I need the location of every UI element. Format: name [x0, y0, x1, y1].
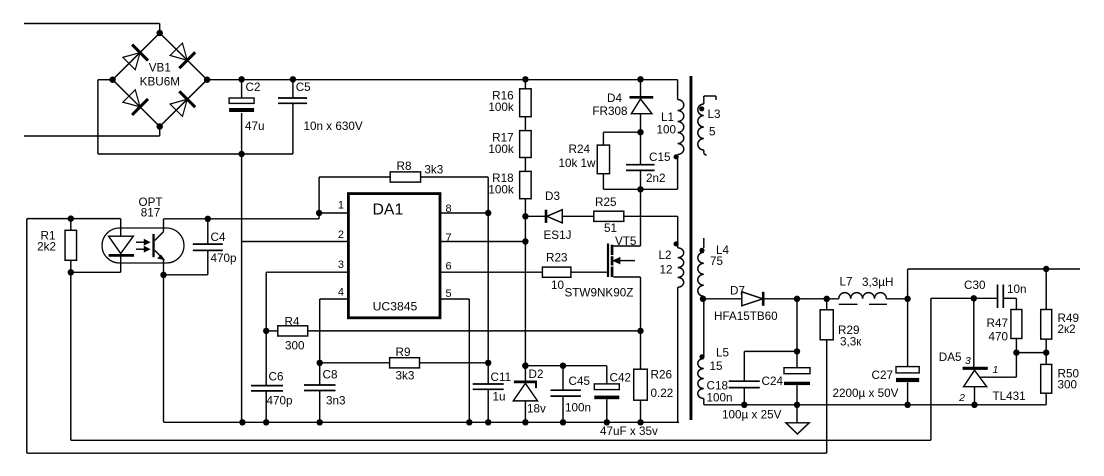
- wire VCC column: [524, 79, 526, 365]
- svg-text:C8: C8: [323, 369, 338, 382]
- svg-text:L5: L5: [716, 347, 730, 360]
- svg-text:C27: C27: [872, 369, 893, 382]
- svg-text:L3: L3: [708, 108, 721, 121]
- svg-text:ES1J: ES1J: [544, 229, 572, 242]
- svg-text:3n3: 3n3: [326, 395, 346, 408]
- wire output plus: [907, 269, 909, 299]
- svg-text:R26: R26: [651, 369, 672, 382]
- svg-text:75: 75: [710, 255, 724, 268]
- capacitor C4: [205, 216, 211, 222]
- wire CS sense: [308, 330, 641, 332]
- wire pin2: [242, 241, 349, 243]
- svg-text:10k 1w: 10k 1w: [558, 157, 596, 170]
- wire AC input top: [24, 23, 160, 25]
- svg-text:470p: 470p: [211, 252, 238, 265]
- inductor L4 secondary winding 75: [698, 238, 705, 299]
- svg-text:2к2: 2к2: [1058, 323, 1076, 336]
- svg-text:2200µ x 50V: 2200µ x 50V: [833, 387, 899, 400]
- wire feedback R29 to opto anode: [27, 452, 827, 454]
- svg-text:R23: R23: [546, 252, 567, 265]
- svg-text:FR308: FR308: [592, 105, 627, 118]
- capacitor C15: [640, 132, 642, 165]
- svg-text:5: 5: [709, 126, 716, 139]
- capacitor C6: [251, 385, 283, 387]
- node L4-L5 junction: [700, 296, 706, 302]
- svg-text:STW9NK90Z: STW9NK90Z: [565, 287, 634, 300]
- diode D4: [630, 96, 654, 99]
- resistor R18: [520, 171, 532, 198]
- capacitor C30: [997, 285, 999, 309]
- resistor R50: [1041, 364, 1052, 393]
- capacitor C45: [562, 366, 564, 391]
- resistor R47: [1011, 310, 1022, 339]
- svg-text:C45: C45: [569, 375, 591, 388]
- svg-text:HFA15TB60: HFA15TB60: [714, 310, 778, 323]
- svg-text:2: 2: [958, 392, 965, 404]
- L2 phase dot: [674, 241, 679, 246]
- svg-text:6: 6: [446, 261, 452, 273]
- resistor R17: [520, 131, 532, 158]
- node divider: [1013, 349, 1019, 355]
- svg-text:470: 470: [988, 331, 1008, 344]
- svg-text:C5: C5: [296, 81, 311, 94]
- inductor L2 aux winding: [678, 248, 684, 287]
- wire pin5: [440, 298, 469, 300]
- resistor R25: [594, 211, 624, 221]
- svg-text:100n: 100n: [565, 402, 591, 415]
- wire pin3: [266, 271, 348, 273]
- svg-text:1u: 1u: [493, 391, 506, 404]
- svg-text:100k: 100k: [488, 101, 514, 114]
- capacitor C24: [796, 299, 798, 368]
- svg-text:18v: 18v: [527, 403, 546, 416]
- wire drain vertical: [640, 189, 642, 246]
- capacitor C8: [304, 384, 336, 386]
- opto LED: [71, 219, 134, 273]
- svg-text:L1: L1: [661, 111, 674, 124]
- inductor L5 secondary winding 15: [698, 354, 705, 405]
- svg-text:D3: D3: [545, 190, 560, 203]
- svg-text:1: 1: [338, 200, 344, 212]
- wire primary return vertical (bridge- / pin2 / ground): [241, 154, 243, 422]
- wire pin8: [440, 212, 488, 214]
- wire AC input bottom: [24, 135, 160, 137]
- resistor R16: [520, 89, 532, 117]
- svg-text:D2: D2: [529, 368, 544, 381]
- svg-text:DA1: DA1: [373, 202, 404, 219]
- svg-text:R8: R8: [397, 160, 412, 173]
- svg-text:C42: C42: [610, 372, 631, 385]
- svg-text:R4: R4: [285, 316, 300, 329]
- svg-text:8: 8: [446, 203, 452, 215]
- wire bridge negative to bottom rail: [98, 79, 113, 81]
- svg-text:100µ x 25V: 100µ x 25V: [722, 409, 782, 422]
- svg-text:300: 300: [1058, 379, 1078, 392]
- svg-text:3,3µH: 3,3µH: [862, 276, 893, 289]
- resistor R29: [826, 299, 828, 310]
- svg-text:100n: 100n: [707, 392, 733, 405]
- svg-text:3: 3: [338, 259, 344, 271]
- svg-text:3: 3: [965, 355, 971, 367]
- svg-text:VT5: VT5: [615, 235, 637, 248]
- svg-text:5: 5: [446, 288, 452, 300]
- node emitter: [160, 272, 166, 278]
- svg-text:C24: C24: [762, 375, 784, 388]
- svg-text:12: 12: [660, 264, 673, 277]
- svg-text:C11: C11: [491, 371, 512, 384]
- capacitor C2: [241, 79, 243, 98]
- svg-text:15: 15: [710, 360, 724, 373]
- wire HV+ rail: [207, 79, 677, 81]
- op-amp U1 DA1 UC3845 controller IC: [338, 194, 452, 318]
- capacitor C5: [292, 79, 294, 98]
- svg-text:R24: R24: [569, 143, 591, 156]
- resistor R9: [317, 360, 323, 366]
- resistor R49: [1045, 269, 1047, 310]
- svg-text:C6: C6: [269, 371, 284, 384]
- svg-text:C30: C30: [964, 279, 986, 292]
- diode D7: [703, 298, 742, 300]
- svg-text:10: 10: [551, 279, 565, 292]
- transistor VT5 STW9NK90Z: [565, 235, 641, 300]
- inductor L7: [839, 293, 887, 299]
- ground symbol: [796, 405, 798, 423]
- wire collector to pin1: [164, 218, 320, 220]
- wire gate: [571, 271, 607, 273]
- shunt regulator DA5 TL431: [963, 298, 1017, 405]
- capacitor C42 47uF: [606, 366, 608, 384]
- svg-text:2n2: 2n2: [646, 172, 666, 185]
- svg-text:UC3845: UC3845: [373, 300, 418, 314]
- bridge rectifier VB1 KBU6M: [109, 30, 210, 130]
- svg-text:R47: R47: [987, 317, 1008, 330]
- resistor R23: [542, 267, 571, 277]
- wire source to sense: [640, 277, 642, 331]
- wire primary ground rail: [164, 421, 680, 423]
- svg-text:4: 4: [338, 287, 344, 299]
- capacitor C11 (VREF): [487, 213, 489, 384]
- svg-text:2: 2: [338, 229, 344, 241]
- svg-text:47uF x 35v: 47uF x 35v: [600, 425, 658, 438]
- svg-text:10n x 630V: 10n x 630V: [304, 120, 363, 133]
- svg-text:2k2: 2k2: [37, 241, 56, 254]
- svg-text:R25: R25: [595, 196, 617, 209]
- L1 phase dot: [674, 154, 679, 159]
- svg-text:DA5: DA5: [939, 351, 962, 364]
- svg-text:R9: R9: [396, 346, 411, 359]
- capacitor C27: [907, 299, 909, 367]
- opto light arrows: [136, 240, 149, 252]
- svg-text:3k3: 3k3: [396, 370, 415, 383]
- svg-text:D7: D7: [730, 285, 745, 298]
- svg-text:C15: C15: [649, 151, 671, 164]
- wire VCC storage caps: [525, 365, 606, 367]
- wire R25 to L2 top: [624, 215, 678, 217]
- transformer core: [690, 76, 693, 420]
- svg-text:TL431: TL431: [993, 390, 1026, 403]
- svg-text:47u: 47u: [245, 120, 265, 133]
- svg-text:0.22: 0.22: [651, 387, 674, 400]
- svg-text:100: 100: [657, 124, 677, 137]
- svg-text:470p: 470p: [267, 395, 294, 408]
- opto phototransistor: [152, 219, 163, 275]
- svg-text:VB1: VB1: [149, 62, 171, 75]
- svg-text:817: 817: [141, 207, 161, 220]
- svg-text:100k: 100k: [488, 143, 514, 156]
- resistor R24: [603, 131, 640, 133]
- wire pin7: [440, 241, 525, 243]
- zener diode D2 18v: [522, 363, 528, 369]
- resistor R4: [263, 328, 269, 334]
- wire opto cathode to TL431 cathode: [70, 272, 72, 440]
- svg-text:3k3: 3k3: [424, 164, 443, 177]
- resistor R1: [70, 219, 72, 231]
- wire pin6: [440, 271, 542, 273]
- svg-text:KBU6M: KBU6M: [140, 76, 180, 89]
- wire pin1: [318, 177, 320, 219]
- svg-text:D4: D4: [607, 92, 622, 105]
- inductor L1 primary winding: [677, 80, 679, 100]
- svg-text:100k: 100k: [488, 184, 514, 197]
- inductor L3 secondary winding 5: [698, 96, 716, 156]
- svg-text:L2: L2: [659, 249, 672, 262]
- svg-text:51: 51: [604, 222, 617, 235]
- diode D3: [525, 215, 546, 217]
- wire secondary ground rail: [704, 404, 1046, 406]
- svg-text:300: 300: [285, 340, 305, 353]
- svg-text:3,3к: 3,3к: [840, 336, 862, 349]
- optocoupler OPT 817: [102, 196, 184, 263]
- wire pin4: [320, 298, 349, 300]
- wire snubber/drain vertical: [640, 79, 642, 97]
- svg-text:C4: C4: [211, 231, 226, 244]
- svg-text:C2: C2: [246, 81, 261, 94]
- svg-text:1: 1: [993, 364, 999, 376]
- resistor R8: [319, 176, 390, 178]
- svg-text:10n: 10n: [1007, 283, 1027, 296]
- resistor R26: [640, 331, 642, 369]
- svg-text:L7: L7: [840, 276, 853, 289]
- capacitor C18: [744, 350, 797, 352]
- svg-text:7: 7: [446, 232, 452, 244]
